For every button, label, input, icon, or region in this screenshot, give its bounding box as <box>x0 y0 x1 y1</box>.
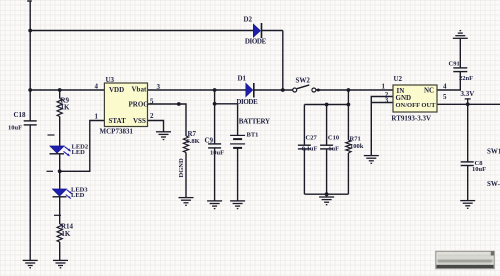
node: R71 sub-rail junction <box>347 103 351 107</box>
svg-text:3: 3 <box>385 97 389 105</box>
node: battery branch junction <box>213 102 217 106</box>
svg-text:D2: D2 <box>244 16 253 24</box>
wire: C10 drop <box>326 105 328 146</box>
svg-text:NC: NC <box>424 87 434 95</box>
wire: U2 pin5 3.3V output rail <box>437 103 500 105</box>
wire: U2 pin4 to C91 <box>437 72 460 90</box>
svg-text:DIODE: DIODE <box>245 37 267 45</box>
wire: D2 cathode to corner <box>262 30 283 32</box>
ground below C9 <box>207 201 222 209</box>
svg-text:C9: C9 <box>205 137 214 145</box>
wire: STAT connection from LED junction to U3 pin1 <box>60 121 105 172</box>
wire: C9 branch vertical <box>214 90 216 144</box>
ground below C27/C10/R71 <box>319 197 334 205</box>
wire: U3 pin5 PROG to R7 <box>148 104 187 136</box>
wire: R9/LED chain segments <box>59 90 61 99</box>
svg-text:C18: C18 <box>14 111 27 119</box>
svg-text:GND: GND <box>396 94 412 102</box>
pin-end tick at STAT junction <box>47 170 54 172</box>
svg-text:C10: C10 <box>328 134 339 141</box>
svg-text:5: 5 <box>150 97 154 105</box>
svg-text:R71: R71 <box>350 136 361 143</box>
battery BT1 <box>230 135 245 148</box>
svg-text:10uF: 10uF <box>472 166 486 173</box>
capacitor C9 <box>208 144 221 148</box>
svg-text:2: 2 <box>150 112 154 120</box>
ground below U2 GND <box>364 156 379 164</box>
node: R9 top junction <box>58 88 62 92</box>
wire: D1 cathode to SW2 <box>254 89 293 91</box>
resistor R7 <box>183 136 188 153</box>
svg-text:SW2: SW2 <box>296 77 311 85</box>
svg-text:Vbat: Vbat <box>132 85 147 93</box>
ground below R14 <box>53 260 68 267</box>
resistor R9 <box>57 99 62 117</box>
node: C10 sub-rail junction <box>325 103 329 107</box>
inverted ground above C91 <box>453 31 468 39</box>
svg-text:1: 1 <box>382 82 386 90</box>
switch SW2 <box>293 85 316 92</box>
svg-text:100k: 100k <box>350 143 364 150</box>
IC U2 RT9193-3.3V regulator <box>391 75 437 123</box>
svg-text:3.3V: 3.3V <box>461 90 475 98</box>
wire: U2 pin2 pin3 to ground <box>371 97 393 156</box>
capacitor C18 <box>24 121 37 125</box>
svg-text:0.1uF: 0.1uF <box>302 145 318 152</box>
ground below R7 <box>179 198 194 206</box>
pin-end tick above LED2 <box>48 134 55 136</box>
wire: vertical from D2 rail down to main rail <box>282 31 284 91</box>
capacitor C8 <box>461 162 474 166</box>
ground below C18 <box>23 260 38 267</box>
svg-text:STAT: STAT <box>109 117 127 125</box>
svg-text:22nF: 22nF <box>459 75 473 82</box>
wire: capacitor sub-rail <box>304 104 348 106</box>
diode D1 <box>246 83 254 98</box>
wire: ground stem below bottom rail <box>326 194 328 197</box>
wire: C8 drop <box>467 104 469 162</box>
ground below C8 <box>460 201 475 209</box>
pin-end tick above R14 <box>54 214 61 216</box>
svg-text:10uF: 10uF <box>8 125 22 132</box>
wire: U3 pin3 Vbat to D1 <box>148 89 246 91</box>
ground below BT1 <box>230 201 245 209</box>
node: wire end after SW2 <box>317 89 320 92</box>
node: PROG junction <box>177 102 181 106</box>
svg-text:BATTERY: BATTERY <box>239 118 270 126</box>
node: D2 rail junction <box>281 88 285 92</box>
resistor R71 <box>346 140 351 153</box>
wire: top-left vertical rail <box>29 1 31 121</box>
svg-text:LED: LED <box>71 192 85 199</box>
svg-text:1K: 1K <box>61 230 71 238</box>
node: LED2/LED3 STAT junction <box>58 169 62 173</box>
svg-text:D1: D1 <box>238 74 247 82</box>
svg-text:C91: C91 <box>449 60 460 67</box>
watermark box bottom right <box>436 251 494 268</box>
svg-text:U2: U2 <box>394 75 403 83</box>
svg-text:RT9193-3.3V: RT9193-3.3V <box>391 114 431 122</box>
svg-text:1K: 1K <box>61 104 71 112</box>
wire: R71 drop from main rail <box>347 90 349 140</box>
IC U3 MCP73831 charge controller <box>100 76 150 135</box>
svg-text:1uF: 1uF <box>328 145 339 152</box>
svg-text:U3: U3 <box>106 76 115 84</box>
capacitor C91 <box>453 68 467 72</box>
svg-text:1: 1 <box>95 112 99 120</box>
node: 3.3V output junction <box>466 102 470 106</box>
svg-text:4: 4 <box>95 83 99 91</box>
svg-text:5: 5 <box>443 93 447 101</box>
capacitor C27 <box>298 145 311 149</box>
svg-text:VDD: VDD <box>109 86 124 94</box>
svg-text:10uF: 10uF <box>210 150 224 157</box>
resistor R14 <box>57 224 62 242</box>
LED LED2 <box>50 146 71 156</box>
svg-text:SW-: SW- <box>487 180 500 188</box>
LED LED3 <box>53 189 72 199</box>
svg-text:3: 3 <box>157 83 161 91</box>
svg-text:DIODE: DIODE <box>236 98 258 106</box>
node: C9 branch junction <box>213 88 217 92</box>
wire: C27 drop <box>303 105 305 146</box>
svg-text:MCP73831: MCP73831 <box>100 127 134 135</box>
pin-end tick at top edge <box>27 0 32 2</box>
node: R71 main rail junction <box>347 88 351 92</box>
wire: SW2 to U2 pin1 <box>316 89 393 91</box>
svg-text:ON/OFF OUT: ON/OFF OUT <box>396 102 437 109</box>
svg-text:4: 4 <box>443 83 447 91</box>
svg-text:BT1: BT1 <box>247 131 259 138</box>
svg-text:LED: LED <box>72 149 86 156</box>
svg-text:6.8K: 6.8K <box>187 138 200 145</box>
svg-text:R7: R7 <box>188 130 197 138</box>
svg-text:C27: C27 <box>306 134 318 141</box>
diode D2 <box>253 23 261 38</box>
svg-text:PROG: PROG <box>129 101 150 109</box>
wire: R7 to ground <box>185 153 187 198</box>
wire: battery branch <box>215 104 238 136</box>
wire: top horizontal rail to D2 <box>30 30 253 32</box>
svg-text:DGND: DGND <box>178 158 185 177</box>
ground below U3 VSS <box>156 132 171 140</box>
node: top-left corner junction <box>28 29 32 33</box>
node: bottom rail ground junction <box>325 192 329 196</box>
capacitor C10 <box>320 145 333 149</box>
node: VDD rail left junction <box>28 88 32 92</box>
wire: U3 pin2 VSS to ground <box>148 121 164 132</box>
wire: bottom rail joining C27 C10 R71 <box>304 193 348 195</box>
wire: C91 to inverted ground <box>459 38 461 68</box>
wire: C18 lower lead to ground <box>29 125 31 261</box>
power port 3.3V <box>465 99 471 104</box>
svg-text:SW1: SW1 <box>487 147 500 155</box>
svg-text:VSS: VSS <box>133 117 146 125</box>
wire: VDD rail from left vertical to U3 pin4 <box>30 89 104 91</box>
